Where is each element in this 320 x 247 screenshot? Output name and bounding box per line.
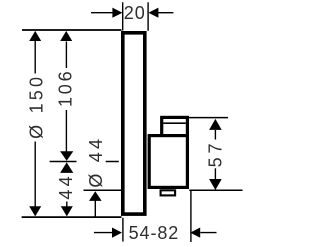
arrow 57 top	[209, 119, 222, 130]
arrow 20 right	[148, 8, 158, 18]
arrow 106 top	[60, 31, 72, 41]
arrow 54-82 left	[112, 228, 122, 238]
dimension 54-82 leader left	[94, 232, 112, 234]
20 extension left	[122, 2, 124, 30]
arrow 54-82 right	[190, 228, 200, 238]
dimension 54-82 leader right	[200, 232, 216, 234]
svg-text:54-82: 54-82	[129, 223, 180, 243]
dimension line O150	[34, 41, 36, 74]
escutcheon plate (side profile)	[123, 33, 145, 214]
54-82 extension left	[122, 218, 124, 242]
svg-text:106: 106	[56, 69, 76, 107]
step parting line	[163, 122, 186, 124]
svg-text:Ø 150: Ø 150	[26, 74, 46, 139]
arrow 44 top (bowtie lower)	[60, 162, 73, 173]
arrow 20 left	[112, 8, 122, 18]
mid extension line (port axis)	[50, 161, 77, 163]
arrow 44 bottom	[61, 206, 73, 216]
arrow O44	[89, 191, 102, 201]
20 extension right	[147, 2, 149, 31]
dimension 20 leader left	[91, 12, 113, 14]
svg-text:20: 20	[124, 3, 146, 23]
dimension line 106	[65, 42, 67, 69]
dimension 20 leader right	[158, 12, 174, 14]
arrow O150 bottom	[29, 206, 41, 216]
handle top step	[162, 117, 188, 135]
O44 extension line	[84, 189, 122, 191]
svg-text:44: 44	[56, 173, 76, 199]
arrow 106 bottom (bowtie upper)	[60, 151, 73, 161]
54-82 extension right	[190, 191, 192, 242]
dimension line 57	[214, 130, 216, 140]
wall top reference line	[22, 29, 122, 31]
arrow O150 top	[29, 31, 41, 41]
bottom reference line	[22, 216, 122, 218]
57 extension bottom	[189, 189, 242, 191]
bottom tab	[161, 190, 176, 195]
handle body	[149, 136, 187, 188]
57 extension top	[189, 117, 228, 119]
svg-text:Ø 44: Ø 44	[86, 136, 106, 188]
dimension line O44	[94, 201, 96, 217]
arrow 57 bottom	[209, 179, 222, 190]
dimension line 44	[66, 202, 68, 208]
svg-text:57: 57	[205, 140, 225, 168]
